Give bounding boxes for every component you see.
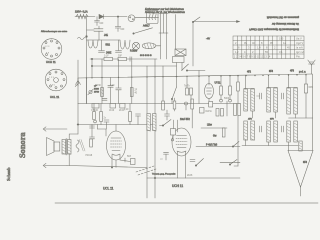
svg-text:J4E: J4E (104, 35, 108, 37)
resistor R4 (104, 56, 113, 61)
cap C10 (86, 125, 95, 158)
svg-text:50Ω: 50Ω (106, 44, 111, 47)
table entries (234, 36, 305, 58)
svg-text:DW11: DW11 (206, 111, 213, 113)
svg-text:A4917: A4917 (143, 25, 150, 28)
heater resistor zigzag (76, 14, 88, 18)
svg-text:UY11: UY11 (215, 82, 222, 85)
svg-text:Heizung der B. bei Wechselstro: Heizung der B. bei Wechselstrom (145, 10, 186, 14)
wire y124 (77, 124, 155, 126)
capacitor C7b (108, 78, 113, 104)
antenna symbol (308, 60, 315, 74)
wire T1 bottom center (115, 160, 117, 167)
svg-text:1 2 3 4 5 6 7 8 9 10 11 12 13: 1 2 3 4 5 6 7 8 9 10 11 12 13 14 (234, 55, 271, 59)
cap C11 (136, 114, 141, 125)
rect pair (216, 109, 224, 117)
switch S4 below bus (171, 77, 176, 104)
svg-text:gemessen an GM 3ernschrift: gemessen an GM 3ernschrift (267, 16, 299, 19)
small circle node (94, 120, 97, 123)
svg-text:1 2 3: 1 2 3 (49, 77, 55, 79)
transformer core (65, 139, 68, 156)
voltage table grid (233, 36, 304, 59)
ground bus y103 (78, 103, 240, 105)
heater dashes (136, 166, 156, 175)
IF transformer L4 primary (287, 75, 291, 114)
resistor R13 (162, 77, 165, 110)
wave symbol (78, 37, 86, 40)
small box right of x155 (171, 120, 176, 138)
svg-text:JF40: JF40 (109, 110, 115, 112)
cap bars left (102, 98, 107, 100)
svg-text:Ia mA: Ia mA (296, 45, 303, 49)
capacitor C4 below (99, 40, 105, 52)
capacitor C3 series (94, 26, 103, 40)
wire left frame vertical (77, 60, 79, 104)
cap C13 (187, 160, 195, 178)
loop antenna frame (288, 151, 313, 197)
output transformer primary (62, 140, 66, 155)
svg-text:UCL 11: UCL 11 (50, 95, 60, 99)
svg-text:Trennw. geg. Fusspunkt: Trennw. geg. Fusspunkt (152, 173, 176, 176)
capacitor C9 6F8 (304, 75, 313, 118)
coil L1 (142, 43, 156, 49)
cathode cap (120, 156, 135, 165)
pair bar L4 (287, 86, 298, 88)
svg-text:5000: 5000 (224, 98, 230, 100)
svg-text:2F40: 2F40 (94, 92, 100, 94)
svg-text:Schaub: Schaub (6, 167, 11, 181)
wire v x118 (118, 59, 120, 77)
cap block TaTb (184, 76, 193, 103)
resistor R10 (237, 82, 240, 91)
resistor R6 (95, 85, 103, 97)
resistor R7 (130, 88, 137, 97)
resistor R12 (124, 104, 131, 125)
svg-text:0,1F: 0,1F (124, 109, 129, 111)
node y178 (154, 177, 155, 178)
coil L10 row2 (294, 121, 298, 142)
svg-text:1 2 3: 1 2 3 (45, 46, 51, 48)
node (77, 124, 78, 125)
grid resistor (90, 139, 93, 147)
loop antenna coil (299, 141, 302, 151)
long vertical x147 (146, 66, 148, 198)
wire x238 to y166 stub (234, 165, 238, 167)
svg-text:P 41/2 TaB: P 41/2 TaB (206, 145, 218, 147)
speaker terminal upper (43, 127, 67, 131)
resistor R9 (224, 76, 231, 102)
coil L8 row2 (274, 121, 278, 142)
IF coil mid secondary (153, 114, 156, 132)
coil L5 row2 (244, 121, 248, 140)
svg-text:Ug2 V: Ug2 V (296, 41, 303, 45)
capacitor C2 (115, 17, 125, 32)
svg-text:UCH 11: UCH 11 (172, 184, 183, 188)
wire right edge vertical (312, 74, 314, 151)
bottom border (55, 202, 318, 204)
wire y178 (147, 177, 240, 179)
label stack (94, 86, 100, 94)
svg-text:50F: 50F (118, 56, 123, 58)
wire v x92 (91, 59, 93, 78)
pair bar L3 (267, 86, 278, 88)
svg-text:P.Jkow: P.Jkow (130, 51, 137, 53)
heater row wire (87, 39, 121, 41)
wire speaker bottom bus (67, 166, 147, 168)
wire row y59 (90, 58, 157, 60)
wire y128 (201, 127, 227, 129)
svg-text:UCH 11: UCH 11 (46, 60, 56, 64)
resistor R17 (173, 101, 176, 109)
trimmer C8c (260, 126, 262, 132)
svg-text:3,1: 3,1 (279, 50, 283, 54)
wire v x86 lower (86, 78, 88, 104)
rectifier tube UY11 (205, 76, 214, 103)
svg-text:24F: 24F (121, 29, 126, 31)
svg-text:UCL 11: UCL 11 (103, 187, 114, 191)
wire v x132 (131, 61, 133, 103)
capacitor C1 top (95, 17, 105, 26)
svg-text:Ta Tb: Ta Tb (184, 86, 190, 88)
grid cap small circle (185, 102, 188, 110)
wire v x268 (268, 142, 270, 146)
wire tube left (98, 129, 107, 136)
voltage selector plug (128, 15, 135, 22)
resistor R11b (93, 104, 96, 120)
coil L7 row2 (267, 121, 271, 142)
mains switch lever (133, 28, 153, 34)
wire y146 with text (196, 145, 240, 147)
resistor R5 (118, 56, 127, 61)
svg-text:220V~ 0,1A: 220V~ 0,1A (75, 11, 88, 14)
resistor R16 (222, 128, 225, 137)
IF transformer L3 primary (267, 75, 271, 112)
wire trafo top (69, 134, 78, 140)
wire y66 bus (92, 65, 177, 67)
pickup jack box (175, 49, 186, 56)
svg-text:uw: uw (160, 159, 163, 161)
IF transformer L2 primary (244, 76, 248, 111)
wire v x288 (288, 142, 290, 151)
svg-text:195: 195 (279, 36, 284, 40)
switch S8 (229, 160, 237, 166)
node J1 (117, 16, 118, 17)
IF transformer L2 secondary (251, 89, 255, 118)
svg-text:1,4: 1,4 (257, 45, 261, 49)
chassis arrow left (75, 78, 80, 87)
wire v x245 (245, 140, 247, 146)
wire x97 vertical (97, 125, 99, 130)
wire dropper x166 down (166, 33, 168, 59)
wire coil to winding (156, 45, 161, 47)
output tube UCL11 (107, 125, 126, 168)
node dots on bus (86, 74, 307, 79)
IF transformer L4 secondary (294, 88, 298, 118)
cap C12 (165, 110, 170, 120)
rectifier diode D1 (99, 14, 127, 18)
trimmer C8 (257, 93, 262, 99)
tube socket V1 (41, 39, 62, 60)
svg-text:μ+1 a: μ+1 a (299, 70, 306, 74)
switch S3 (182, 64, 206, 76)
node (91, 58, 92, 59)
mains dropper box (147, 11, 159, 24)
wire y118 right (289, 117, 313, 119)
svg-text:P4918: P4918 (86, 155, 93, 157)
wire switch bus (193, 21, 238, 23)
switch S6 (195, 159, 203, 167)
svg-text:2Fd8: 2Fd8 (187, 175, 193, 177)
wire switch drop (192, 22, 194, 66)
svg-text:Meßinstrument für Spannungen 1: Meßinstrument für Spannungen 1000 Ohm/V (249, 28, 299, 31)
switch S5 (160, 120, 172, 127)
long vertical x155 (154, 59, 156, 198)
speaker terminal lower (43, 163, 67, 167)
cap C14 (160, 152, 169, 160)
svg-text:ω ω ω ω ω: ω ω ω ω ω (140, 55, 152, 57)
arrow end (237, 21, 240, 23)
small box DW (200, 108, 213, 114)
wire y146 (242, 145, 298, 147)
svg-text:5000: 5000 (94, 89, 100, 91)
wire v x174 (174, 98, 176, 111)
svg-text:Ua V: Ua V (296, 36, 302, 40)
mains switch S1b (192, 17, 200, 23)
IF coil mid primary (147, 114, 150, 132)
output transformer secondary (68, 140, 72, 155)
cap pair 2x (90, 118, 110, 130)
svg-text:Sonora: Sonora (18, 132, 27, 158)
wire v x102 (101, 59, 103, 104)
main HT bus (78, 74, 312, 78)
svg-text:Gw: Gw (213, 136, 217, 138)
svg-text:24F: 24F (100, 23, 105, 25)
wire x238 vertical (237, 76, 239, 166)
switch S7 (232, 142, 239, 148)
electrolytic box (91, 104, 99, 113)
coil L9 row2 (287, 121, 291, 142)
svg-text:7 6 5: 7 6 5 (50, 85, 56, 87)
pin circle (171, 139, 173, 141)
wire v x199 below bus (198, 76, 200, 103)
wire v x163 (162, 66, 164, 77)
IF transformer L3 secondary (274, 88, 278, 118)
capacitor C5 below (116, 40, 122, 52)
resistor R11 (100, 104, 103, 125)
cap box under bus b (119, 104, 125, 113)
wire selector right (135, 17, 159, 19)
svg-text:-4V: -4V (206, 37, 210, 41)
wire v x227 (226, 101, 228, 116)
resistor R15 pair (234, 104, 241, 116)
svg-text:Pkt.: Pkt. (296, 55, 301, 59)
pot with arrow (88, 89, 93, 95)
svg-text:Röhrenfassungen von unten: Röhrenfassungen von unten (41, 30, 68, 33)
terminal box TA (173, 57, 185, 77)
wire dropper x160 down (160, 33, 162, 59)
svg-text:LW40: LW40 (95, 85, 102, 87)
capacitor C7 (110, 77, 121, 103)
node (91, 65, 92, 66)
pair bar L2 (244, 87, 255, 89)
svg-text:Ig2 mA: Ig2 mA (296, 50, 304, 54)
cap box under bus (109, 104, 116, 113)
svg-text:J40E: J40E (106, 53, 112, 55)
svg-text:0,1F: 0,1F (104, 56, 109, 58)
wire left edge vertical (86, 17, 88, 104)
fuse hump B (120, 40, 130, 49)
loudspeaker (47, 138, 60, 156)
tube socket V2 (45, 69, 67, 91)
tone cap squiggle (76, 140, 85, 153)
coil L6 row2 (251, 121, 255, 140)
wire y30 stub (87, 29, 95, 31)
resistor R8 (220, 76, 223, 102)
fuse hump A (88, 40, 98, 48)
svg-text:Ua Strome Messung der: Ua Strome Messung der (272, 22, 299, 25)
wire y162 (220, 161, 240, 163)
svg-text:Li2w: Li2w (207, 125, 212, 127)
mixer tube UCH11 (172, 120, 191, 178)
pin dot (111, 167, 112, 168)
wire x175 vertical (175, 15, 177, 50)
node (86, 36, 88, 38)
trimmer C8b (282, 93, 284, 99)
wire x78 drop (77, 104, 79, 135)
svg-text:Entbrummer nur bei Gleichstrom: Entbrummer nur bei Gleichstrom (145, 7, 185, 11)
small rect (209, 102, 213, 108)
svg-text:1,2: 1,2 (235, 50, 239, 54)
wire trafo bottom (68, 154, 70, 166)
transformer windings (159, 14, 168, 34)
capacitor C6 (130, 57, 132, 61)
trimmer C8d (282, 126, 284, 132)
resistor R14 (191, 99, 194, 128)
wire top mains line (75, 16, 95, 18)
svg-text:10nF 5F2: 10nF 5F2 (180, 119, 191, 121)
dial lamp (132, 42, 139, 49)
